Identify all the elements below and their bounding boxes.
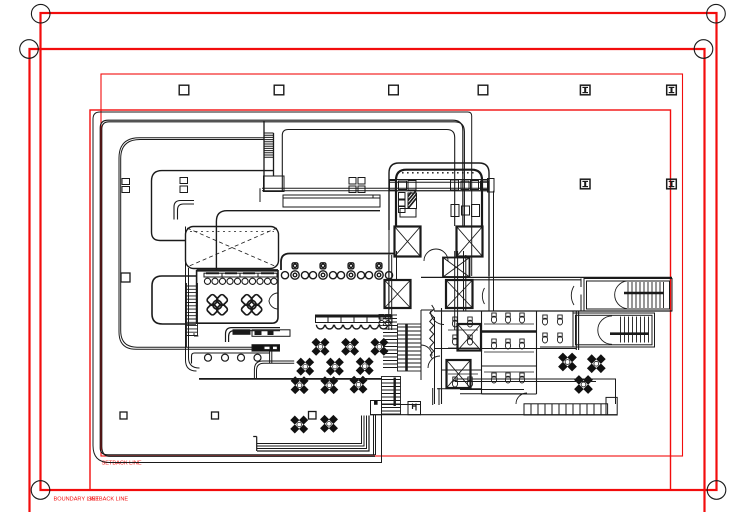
- flower table 2: [241, 294, 263, 316]
- stair flight 1 treads: [398, 324, 422, 371]
- diamond table (365,366): [356, 357, 374, 375]
- service shaft box: [264, 176, 285, 192]
- column grid square (312,415): [309, 412, 317, 420]
- east wing north wall: [421, 277, 672, 279]
- elevator X box 5: [458, 324, 482, 351]
- band column cluster b: [349, 178, 416, 193]
- corner circle A top-right: [707, 4, 726, 23]
- stair flight2 rail: [394, 378, 396, 407]
- east wing mid walls: [435, 311, 579, 394]
- diamond table (350,347): [341, 338, 359, 356]
- door L-wall: [174, 201, 194, 220]
- outrigger column box: [488, 179, 495, 193]
- stair flight 2 treads: [382, 377, 401, 415]
- diamond table (329,424): [320, 415, 338, 433]
- double door arcs lobby: [424, 249, 448, 261]
- wc accessible fixtures: [379, 315, 391, 326]
- door arc mid corridor: [431, 311, 445, 325]
- corridor door arc mid: [482, 288, 484, 304]
- corner circle A top-left: [31, 4, 50, 23]
- lounge rounded wall Ra: [152, 171, 274, 241]
- corner circle B top-right: [694, 40, 713, 59]
- lounge counter bottom: [192, 353, 271, 364]
- riser boxes below: [399, 193, 417, 218]
- setback line rect C (thin): [101, 74, 683, 456]
- east wing south wall: [455, 379, 616, 404]
- bar counter segments: [316, 315, 393, 323]
- diamond table (567,362): [558, 353, 577, 372]
- north dining wall: [281, 254, 395, 271]
- east dining diamonds: [558, 353, 606, 394]
- stair E2 enclosure: [573, 313, 655, 347]
- diamond table (320,347): [312, 338, 330, 356]
- corridor drop at x262: [259, 188, 261, 202]
- band column cluster c: [451, 180, 470, 190]
- wc fixtures row a: [452, 313, 524, 387]
- diamond table (305,366): [296, 358, 314, 376]
- stair E1 treads: [615, 281, 664, 309]
- corridor line pair y188: [262, 188, 489, 190]
- stair E1 rail: [624, 292, 664, 295]
- east wing floor line y311: [434, 310, 672, 312]
- envelope inner line E3 inner: [121, 140, 272, 364]
- plinth left box: [371, 401, 382, 415]
- terrace curb nested corner L2: [257, 416, 364, 447]
- enclosure vertical pair: [374, 415, 376, 456]
- ladder rungs: [264, 133, 274, 157]
- svg-text:SETBACK LINE: SETBACK LINE: [102, 461, 142, 467]
- stair E2 treads: [598, 316, 652, 344]
- tower side walls down: [389, 191, 494, 310]
- room service walls: [226, 328, 281, 342]
- parapet tick dashes: [402, 172, 476, 174]
- service shaft ladder walls: [264, 121, 274, 191]
- two-seat cluster 3: [337, 263, 364, 279]
- banquette chairs: [204, 278, 277, 284]
- corner circle A bottom-right: [707, 481, 726, 500]
- toilet room walls: [442, 308, 537, 404]
- band column cluster d: [471, 181, 489, 190]
- lounge rounded wall Rb: [216, 211, 380, 271]
- elevator X box 4: [446, 280, 473, 308]
- elevator shaft X box 2b: [443, 258, 470, 278]
- diamond table (596,363): [587, 354, 606, 373]
- flower table 1: [206, 294, 228, 316]
- bar stools semicircles: [316, 325, 387, 329]
- envelope inner ledge E2c: [282, 130, 454, 227]
- door arcs room right: [269, 293, 278, 309]
- stair E1 door jamb: [581, 279, 584, 312]
- planter pair west b: [180, 178, 188, 193]
- west wall pair vertical: [186, 227, 200, 372]
- service room walls: [537, 311, 574, 347]
- tower floor band lines: [389, 180, 489, 191]
- envelope outer thin line E1: [93, 112, 472, 463]
- envelope inner line E3 outer: [119, 138, 270, 363]
- door arc east: [516, 393, 527, 404]
- elevator shaft X box 2: [457, 227, 483, 257]
- diamond table (335,366): [326, 358, 344, 376]
- column I-marker (585,90): [580, 85, 590, 95]
- stall partitions: [448, 324, 534, 374]
- envelope main wall E2 outer: [100, 120, 463, 455]
- diamond table (379,347): [370, 338, 388, 356]
- diamond table (358,385): [350, 376, 368, 394]
- stair center rail: [405, 324, 408, 371]
- south plinth line: [370, 414, 617, 416]
- tower rounded parapet outer: [389, 163, 489, 276]
- elevator shaft X box 1: [395, 227, 421, 257]
- tower rounded parapet inner thick: [396, 170, 482, 226]
- lounge bay Rc: [152, 276, 196, 324]
- diamond table (329,385): [320, 376, 338, 394]
- diamond table (300,385): [291, 376, 309, 394]
- lounge counter chairs: [205, 354, 262, 361]
- column grid square (125,277): [121, 273, 130, 282]
- banquette counter: [197, 270, 278, 277]
- column I-marker (671,184): [667, 179, 677, 189]
- column grid square (184,90): [179, 85, 189, 95]
- corner circle B top-left: [20, 40, 39, 59]
- planter inner line: [283, 195, 380, 198]
- elevator X box 6: [447, 360, 471, 388]
- column grid square (279,90): [274, 85, 284, 95]
- tower mid column pair right: [451, 205, 480, 217]
- toilet counter bar: [482, 330, 536, 332]
- hatched riser shaft: [408, 191, 417, 209]
- stair west flight treads: [383, 315, 397, 368]
- plinth step box: [408, 402, 421, 415]
- corridor walls east of core: [464, 251, 494, 311]
- stair E2 rail: [610, 332, 649, 335]
- diamond table (583,384): [574, 375, 593, 394]
- terrace floor edge: [199, 378, 382, 380]
- two-seat cluster 4: [365, 263, 392, 279]
- service room fixtures: [542, 315, 562, 343]
- corridor door arc west: [571, 286, 574, 305]
- enclosure vertical right: [381, 415, 383, 463]
- canopy roof dashed X rect: [186, 227, 279, 269]
- planter rect north: [283, 195, 380, 207]
- column grid square (215,415): [212, 412, 219, 419]
- corner circle A bottom-left: [31, 481, 50, 500]
- core wall verticals: [389, 251, 458, 330]
- diamond table (299,424): [290, 416, 308, 434]
- two-seat cluster 2: [309, 263, 336, 279]
- scalloped edge strip: [524, 397, 617, 415]
- door arc core south: [421, 345, 440, 368]
- walkway edge pair: [254, 361, 294, 378]
- column grid square (393,90): [389, 85, 399, 95]
- column I-marker (585,184): [580, 179, 590, 189]
- envelope main wall E2 inner: [102, 122, 465, 457]
- zigzag jamb wall: [430, 305, 435, 359]
- terrace curb nested corner L1: [257, 416, 362, 444]
- svg-text:SETBACK LINE: SETBACK LINE: [88, 497, 128, 503]
- ramp stair west: [187, 283, 199, 347]
- service desk dark: [233, 330, 290, 337]
- column I-marker (671,90): [667, 85, 677, 95]
- column grid square (123,415): [120, 412, 127, 419]
- elevator X box 3: [385, 280, 411, 308]
- terrace curb nested corner L4: [257, 416, 369, 452]
- planter pair west a: [122, 179, 130, 193]
- core south walls: [382, 308, 442, 405]
- stair E1 enclosure: [584, 279, 672, 312]
- band column cluster a: [390, 181, 407, 191]
- private dining room walls: [197, 271, 278, 323]
- setback line rect D: [90, 110, 671, 490]
- service desk dark band: [252, 345, 280, 351]
- terrace curb nested corner L3: [257, 416, 367, 449]
- two-seat cluster 1: [281, 263, 308, 279]
- toilet counter bar 2: [482, 365, 536, 367]
- terrace curb left cap: [253, 437, 257, 452]
- south mid wall: [433, 388, 481, 405]
- column grid square (483,90): [478, 85, 488, 95]
